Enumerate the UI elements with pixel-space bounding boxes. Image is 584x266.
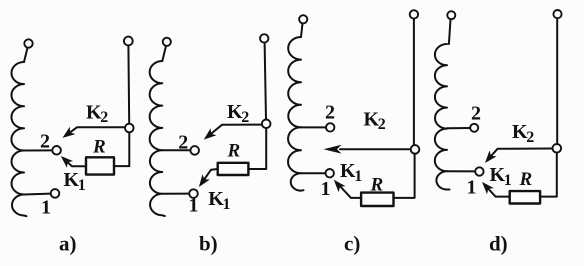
svg-text:1: 1 — [189, 195, 199, 217]
svg-text:c): c) — [344, 231, 360, 255]
svg-text:R: R — [519, 169, 533, 190]
svg-text:1: 1 — [504, 172, 512, 189]
svg-text:1: 1 — [78, 177, 86, 194]
svg-text:1: 1 — [223, 196, 231, 213]
svg-text:2: 2 — [178, 132, 188, 154]
svg-text:2: 2 — [471, 103, 481, 125]
svg-text:a): a) — [59, 231, 77, 255]
svg-text:1: 1 — [467, 177, 477, 199]
svg-text:R: R — [227, 141, 241, 162]
svg-text:d): d) — [489, 231, 508, 255]
svg-text:2: 2 — [325, 102, 335, 124]
svg-text:1: 1 — [321, 178, 331, 200]
svg-text:2: 2 — [100, 109, 108, 126]
svg-text:2: 2 — [40, 131, 50, 153]
svg-text:b): b) — [199, 231, 218, 255]
svg-text:2: 2 — [378, 116, 386, 133]
svg-text:R: R — [92, 137, 106, 158]
svg-text:1: 1 — [41, 197, 51, 219]
svg-text:2: 2 — [241, 109, 249, 126]
svg-text:2: 2 — [526, 129, 534, 146]
svg-text:1: 1 — [354, 168, 362, 185]
svg-text:R: R — [370, 175, 384, 196]
